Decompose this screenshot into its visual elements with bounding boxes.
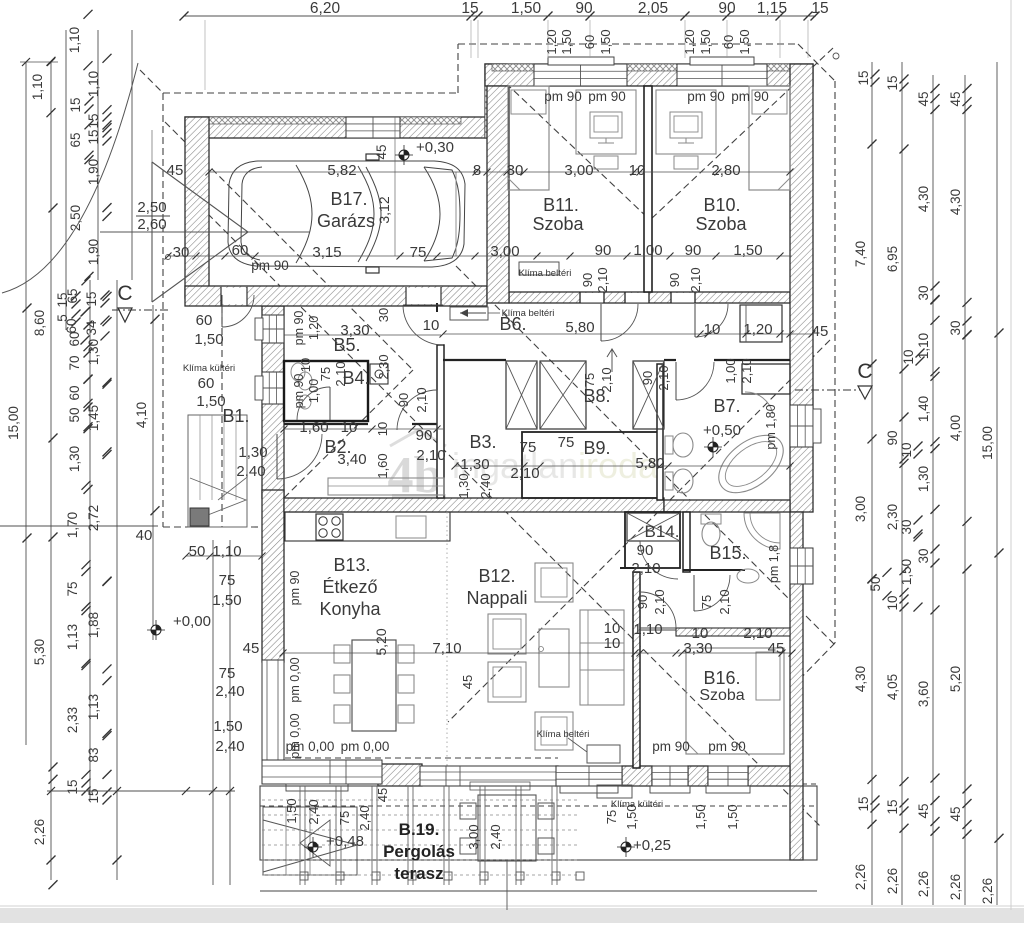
svg-text:3,30: 3,30 (683, 640, 712, 657)
svg-text:1,10: 1,10 (212, 543, 241, 560)
svg-text:75: 75 (219, 665, 236, 682)
svg-text:5,30: 5,30 (32, 639, 47, 665)
svg-text:1,40: 1,40 (916, 396, 931, 422)
svg-text:Klíma beltéri: Klíma beltéri (502, 308, 555, 319)
svg-text:1,45: 1,45 (86, 405, 101, 431)
svg-text:75: 75 (318, 367, 333, 381)
svg-text:1,50: 1,50 (559, 29, 574, 54)
svg-text:B.19.: B.19. (399, 820, 440, 839)
svg-text:10: 10 (298, 358, 313, 372)
svg-text:2,26: 2,26 (885, 868, 900, 894)
svg-text:83: 83 (86, 747, 101, 762)
svg-text:10: 10 (341, 419, 358, 436)
svg-text:6,95: 6,95 (885, 246, 900, 272)
svg-text:75: 75 (219, 572, 236, 589)
svg-text:4,05: 4,05 (885, 674, 900, 700)
svg-text:30: 30 (899, 519, 914, 534)
svg-text:70: 70 (67, 355, 82, 370)
svg-text:75: 75 (604, 810, 619, 824)
svg-text:15: 15 (84, 291, 99, 306)
svg-text:2,10: 2,10 (656, 365, 671, 390)
svg-text:1,50: 1,50 (196, 393, 225, 410)
svg-text:1,90: 1,90 (86, 239, 101, 265)
svg-text:Klíma beltéri: Klíma beltéri (537, 729, 590, 740)
svg-text:75: 75 (410, 244, 427, 261)
svg-text:90: 90 (637, 542, 654, 559)
svg-text:pm 90: pm 90 (652, 739, 690, 754)
svg-text:15: 15 (65, 779, 80, 794)
svg-text:2,26: 2,26 (916, 871, 931, 897)
svg-text:pm 90: pm 90 (292, 374, 306, 409)
svg-text:Szoba: Szoba (695, 214, 747, 234)
svg-text:4,30: 4,30 (948, 189, 963, 215)
svg-text:2,26: 2,26 (948, 874, 963, 900)
svg-text:2,10: 2,10 (333, 361, 348, 386)
svg-text:1,30: 1,30 (456, 473, 471, 498)
svg-text:2,10: 2,10 (631, 560, 660, 577)
svg-text:1,30: 1,30 (67, 446, 82, 472)
svg-text:pm 1,80: pm 1,80 (764, 404, 778, 449)
svg-text:3,12: 3,12 (376, 196, 392, 223)
svg-text:pm 90: pm 90 (544, 89, 582, 104)
svg-text:2,10: 2,10 (595, 267, 610, 292)
svg-text:90: 90 (416, 427, 433, 444)
svg-text:3,40: 3,40 (337, 451, 366, 468)
svg-text:45: 45 (374, 144, 389, 159)
svg-text:5,20: 5,20 (948, 666, 963, 692)
svg-text:10: 10 (604, 635, 621, 652)
svg-text:+0,50: +0,50 (703, 422, 741, 439)
svg-text:45: 45 (243, 640, 260, 657)
svg-text:65: 65 (68, 132, 83, 147)
svg-text:2,10: 2,10 (652, 589, 667, 614)
svg-text:1,50: 1,50 (698, 29, 713, 54)
svg-text:1,50: 1,50 (213, 718, 242, 735)
svg-text:45: 45 (916, 91, 931, 106)
svg-text:90: 90 (580, 273, 595, 287)
svg-text:B3.: B3. (469, 432, 496, 452)
svg-text:3,00: 3,00 (490, 243, 519, 260)
svg-text:60: 60 (198, 375, 215, 392)
svg-text:1,00: 1,00 (307, 379, 321, 403)
svg-text:2,40: 2,40 (478, 473, 493, 498)
svg-text:B9.: B9. (583, 438, 610, 458)
svg-text:2,30: 2,30 (376, 354, 391, 379)
svg-text:60: 60 (232, 242, 249, 259)
svg-text:2,40: 2,40 (236, 463, 265, 480)
svg-text:45: 45 (375, 788, 390, 802)
svg-text:90: 90 (685, 242, 702, 259)
svg-text:1,10: 1,10 (67, 27, 82, 53)
svg-text:1,10: 1,10 (30, 74, 45, 100)
svg-text:10: 10 (885, 595, 900, 610)
svg-text:2,10: 2,10 (510, 465, 539, 482)
svg-text:3,60: 3,60 (916, 681, 931, 707)
svg-text:+0,48: +0,48 (326, 833, 364, 850)
svg-text:B17.: B17. (330, 189, 367, 209)
svg-text:pm 0,00: pm 0,00 (288, 713, 302, 758)
svg-text:+0,30: +0,30 (416, 139, 454, 156)
svg-text:1,30: 1,30 (86, 339, 101, 365)
svg-text:2,40: 2,40 (488, 824, 503, 849)
svg-text:30: 30 (948, 320, 963, 335)
svg-text:45: 45 (812, 323, 829, 340)
svg-text:15: 15 (68, 97, 83, 112)
svg-text:pm 90: pm 90 (251, 258, 289, 273)
svg-text:1,50: 1,50 (598, 29, 613, 54)
svg-text:1,20: 1,20 (682, 29, 697, 54)
svg-text:60: 60 (196, 312, 213, 329)
svg-text:30: 30 (916, 285, 931, 300)
svg-text:1,50: 1,50 (624, 804, 639, 829)
svg-text:2,50: 2,50 (68, 205, 83, 231)
svg-text:+0,25: +0,25 (633, 837, 671, 854)
svg-text:pm 90: pm 90 (588, 89, 626, 104)
svg-text:1,30: 1,30 (238, 444, 267, 461)
svg-text:B12.: B12. (478, 566, 515, 586)
svg-text:1,60: 1,60 (375, 453, 390, 478)
svg-text:15: 15 (86, 129, 101, 144)
svg-text:90: 90 (635, 595, 650, 609)
svg-text:3,15: 3,15 (312, 244, 341, 261)
svg-text:3,00: 3,00 (564, 162, 593, 179)
svg-text:8: 8 (473, 162, 481, 179)
svg-text:60: 60 (721, 35, 736, 49)
svg-text:1,13: 1,13 (86, 694, 101, 720)
svg-text:75: 75 (582, 373, 597, 387)
svg-text:10: 10 (704, 321, 721, 338)
svg-text:+0,00: +0,00 (173, 613, 211, 630)
svg-text:10: 10 (899, 442, 914, 457)
svg-text:1,15: 1,15 (757, 0, 787, 17)
svg-text:1,10: 1,10 (633, 621, 662, 638)
svg-text:2,10: 2,10 (599, 367, 614, 392)
svg-text:1,00: 1,00 (633, 242, 662, 259)
svg-text:2,26: 2,26 (853, 864, 868, 890)
svg-text:2,60: 2,60 (137, 216, 166, 233)
svg-text:Szoba: Szoba (532, 214, 584, 234)
svg-text:Nappali: Nappali (466, 588, 527, 608)
svg-text:15: 15 (856, 70, 871, 85)
svg-text:B13.: B13. (333, 555, 370, 575)
svg-text:15: 15 (856, 796, 871, 811)
svg-text:1,50: 1,50 (284, 798, 299, 823)
svg-text:5,80: 5,80 (565, 319, 594, 336)
svg-text:75: 75 (65, 581, 80, 596)
svg-text:45: 45 (460, 675, 475, 689)
svg-text:15: 15 (885, 799, 900, 814)
svg-text:3,30: 3,30 (340, 322, 369, 339)
svg-text:1,00: 1,00 (723, 358, 738, 383)
svg-text:5,80: 5,80 (635, 455, 664, 472)
svg-text:10: 10 (901, 349, 916, 364)
svg-text:75: 75 (558, 434, 575, 451)
svg-text:2,50: 2,50 (137, 199, 166, 216)
svg-text:60: 60 (582, 35, 597, 49)
svg-text:B11.: B11. (543, 195, 579, 215)
svg-text:pm 90: pm 90 (687, 89, 725, 104)
svg-text:1,30: 1,30 (916, 466, 931, 492)
svg-text:30: 30 (916, 548, 931, 563)
svg-text:B1.: B1. (222, 406, 249, 426)
svg-text:90: 90 (718, 0, 736, 17)
svg-text:8,60: 8,60 (32, 310, 47, 336)
svg-text:1,88: 1,88 (86, 612, 101, 638)
svg-text:1,50: 1,50 (725, 804, 740, 829)
svg-text:1,20: 1,20 (544, 29, 559, 54)
svg-text:1,50: 1,50 (511, 0, 542, 17)
svg-text:1,50: 1,50 (212, 592, 241, 609)
svg-text:10: 10 (423, 317, 440, 334)
svg-text:75: 75 (520, 439, 537, 456)
svg-text:Klíma kültéri: Klíma kültéri (183, 363, 235, 374)
svg-text:4,10: 4,10 (134, 402, 149, 428)
svg-text:40: 40 (136, 527, 153, 544)
svg-text:4,00: 4,00 (948, 415, 963, 441)
svg-text:pm 1,8: pm 1,8 (767, 545, 781, 583)
svg-text:15: 15 (885, 75, 900, 90)
svg-text:B14.: B14. (645, 522, 680, 541)
svg-text:90: 90 (396, 393, 411, 407)
svg-text:2,40: 2,40 (357, 805, 372, 830)
svg-text:5,82: 5,82 (327, 162, 356, 179)
svg-text:Garázs: Garázs (317, 211, 375, 231)
svg-text:50: 50 (189, 543, 206, 560)
svg-text:1,50: 1,50 (693, 804, 708, 829)
svg-text:C: C (117, 282, 132, 305)
svg-text:B10.: B10. (703, 195, 740, 215)
svg-text:45: 45 (948, 806, 963, 821)
svg-text:1,50: 1,50 (899, 559, 914, 585)
svg-text:30: 30 (173, 244, 190, 261)
svg-text:6,20: 6,20 (310, 0, 341, 17)
svg-text:45: 45 (167, 162, 184, 179)
svg-text:Konyha: Konyha (319, 599, 381, 619)
svg-text:1,50: 1,50 (194, 331, 223, 348)
svg-text:1,10: 1,10 (86, 71, 101, 97)
svg-text:45: 45 (768, 640, 785, 657)
svg-text:2,26: 2,26 (32, 819, 47, 845)
svg-text:pm 90: pm 90 (288, 571, 302, 606)
svg-text:2,40: 2,40 (215, 683, 244, 700)
svg-text:60: 60 (67, 331, 82, 346)
svg-text:10: 10 (629, 162, 646, 179)
svg-text:90: 90 (667, 273, 682, 287)
svg-text:1,20: 1,20 (307, 316, 321, 340)
svg-text:3,00: 3,00 (853, 496, 868, 522)
svg-text:2,10: 2,10 (416, 447, 445, 464)
svg-text:Pergolás: Pergolás (383, 842, 455, 861)
svg-text:2,33: 2,33 (65, 707, 80, 733)
svg-text:60: 60 (64, 318, 79, 333)
svg-text:terasz: terasz (394, 864, 443, 883)
svg-text:pm 90: pm 90 (292, 311, 306, 346)
svg-text:4,30: 4,30 (916, 186, 931, 212)
svg-text:B7.: B7. (713, 396, 740, 416)
svg-text:90: 90 (575, 0, 593, 17)
svg-text:2,05: 2,05 (638, 0, 668, 17)
svg-text:30: 30 (376, 308, 391, 322)
svg-text:60: 60 (67, 385, 82, 400)
svg-text:2,80: 2,80 (711, 162, 740, 179)
svg-text:1,70: 1,70 (65, 512, 80, 538)
svg-text:2,30: 2,30 (885, 504, 900, 530)
svg-text:2,72: 2,72 (86, 505, 101, 531)
svg-text:C: C (857, 360, 872, 383)
svg-text:Klíma beltéri: Klíma beltéri (519, 268, 572, 279)
svg-text:75: 75 (699, 595, 714, 609)
svg-text:1,60: 1,60 (299, 419, 328, 436)
svg-text:50: 50 (868, 576, 883, 591)
svg-text:15: 15 (55, 292, 70, 307)
svg-text:B15.: B15. (709, 543, 746, 563)
svg-text:3,00: 3,00 (466, 824, 481, 849)
svg-text:2,10: 2,10 (414, 387, 429, 412)
svg-text:45: 45 (948, 91, 963, 106)
svg-text:2,26: 2,26 (980, 878, 995, 904)
svg-text:50: 50 (67, 407, 82, 422)
svg-text:45: 45 (916, 803, 931, 818)
svg-text:B16.: B16. (703, 668, 740, 688)
svg-text:1,13: 1,13 (65, 624, 80, 650)
svg-text:1,90: 1,90 (86, 159, 101, 185)
svg-text:Étkező: Étkező (322, 577, 377, 597)
svg-text:1,50: 1,50 (733, 242, 762, 259)
svg-text:2,10: 2,10 (717, 589, 732, 614)
svg-text:5,20: 5,20 (373, 628, 389, 655)
svg-text:75: 75 (337, 811, 352, 825)
svg-text:15: 15 (811, 0, 828, 17)
svg-text:90: 90 (595, 242, 612, 259)
svg-text:2,10: 2,10 (739, 358, 754, 383)
svg-text:2,40: 2,40 (306, 799, 321, 824)
svg-text:1,20: 1,20 (743, 321, 772, 338)
svg-text:7,10: 7,10 (432, 640, 461, 657)
svg-text:1,30: 1,30 (460, 456, 489, 473)
svg-text:30: 30 (507, 162, 524, 179)
svg-text:2,40: 2,40 (215, 738, 244, 755)
svg-text:Szoba: Szoba (699, 687, 744, 704)
svg-text:4,30: 4,30 (853, 666, 868, 692)
svg-text:90: 90 (885, 430, 900, 445)
svg-text:pm 0,00: pm 0,00 (288, 657, 302, 702)
svg-text:1,50: 1,50 (737, 29, 752, 54)
svg-text:15: 15 (461, 0, 478, 17)
svg-text:10: 10 (375, 422, 390, 436)
svg-text:pm 0,00: pm 0,00 (341, 739, 390, 754)
svg-text:90: 90 (640, 371, 655, 385)
svg-text:15,00: 15,00 (6, 406, 21, 440)
svg-text:pm 90: pm 90 (708, 739, 746, 754)
svg-text:7,40: 7,40 (853, 241, 868, 267)
svg-text:2,10: 2,10 (688, 267, 703, 292)
svg-text:pm 90: pm 90 (731, 89, 769, 104)
svg-text:15,00: 15,00 (980, 426, 995, 460)
